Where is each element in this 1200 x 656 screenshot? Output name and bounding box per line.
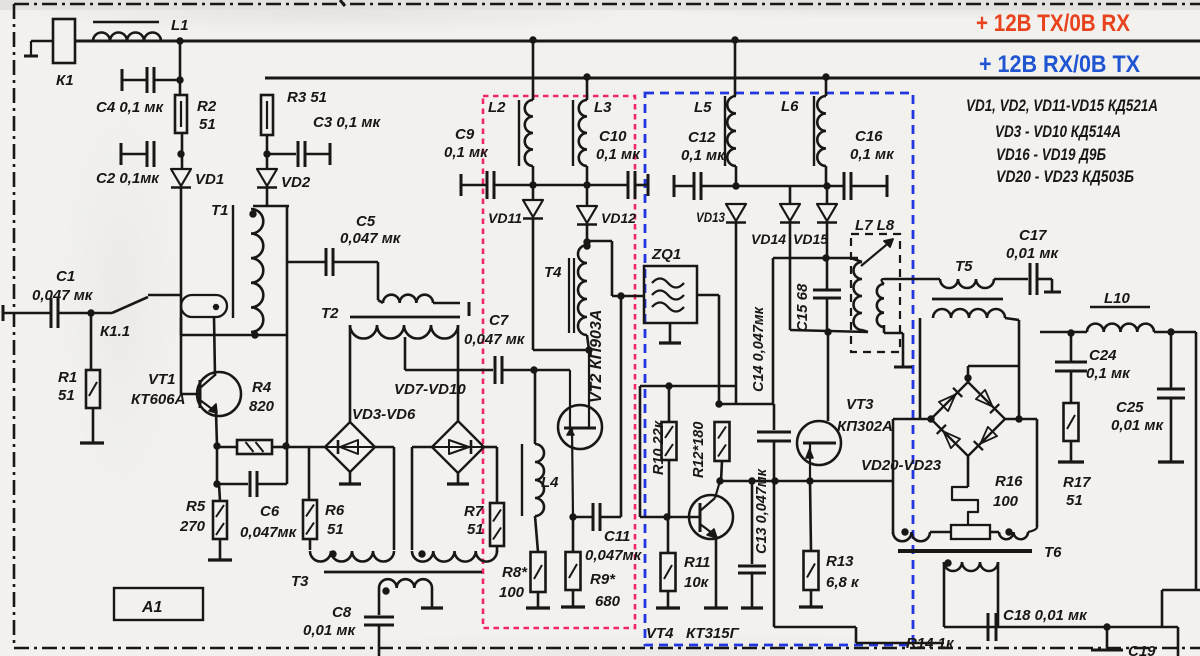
svg-text:R17: R17	[1063, 474, 1091, 491]
svg-text:R6: R6	[325, 502, 345, 519]
svg-text:С8: С8	[332, 604, 352, 621]
svg-text:С24: С24	[1089, 347, 1117, 364]
svg-text:51: 51	[58, 387, 75, 404]
svg-text:R2: R2	[197, 98, 217, 115]
svg-text:R9*: R9*	[590, 571, 616, 588]
svg-text:820: 820	[249, 398, 275, 415]
svg-text:R1: R1	[58, 369, 77, 386]
svg-text:VD3 - VD10 КД514А: VD3 - VD10 КД514А	[995, 122, 1121, 141]
svg-text:Т4: Т4	[544, 264, 562, 281]
svg-text:0,047 мк: 0,047 мк	[32, 287, 94, 304]
svg-text:R14 1к: R14 1к	[906, 635, 955, 652]
svg-text:ZQ1: ZQ1	[651, 246, 681, 263]
svg-text:R7: R7	[464, 503, 484, 520]
svg-text:0,1 мк: 0,1 мк	[681, 147, 726, 164]
svg-text:С5: С5	[356, 213, 376, 230]
svg-text:Т1: Т1	[211, 202, 229, 219]
svg-text:С25: С25	[1116, 399, 1144, 416]
svg-text:КП302А: КП302А	[837, 418, 893, 435]
svg-text:С1: С1	[56, 268, 75, 285]
svg-text:К1.1: К1.1	[100, 323, 130, 340]
svg-text:К1: К1	[56, 72, 74, 89]
svg-text:0,047 мк: 0,047 мк	[464, 331, 526, 348]
svg-text:0,1 мк: 0,1 мк	[596, 146, 641, 163]
svg-text:VD13: VD13	[696, 209, 725, 225]
svg-text:L2: L2	[488, 99, 506, 116]
svg-text:0,047мк: 0,047мк	[585, 547, 643, 564]
svg-text:51: 51	[327, 521, 344, 538]
svg-text:Т2: Т2	[321, 305, 339, 322]
svg-text:100: 100	[499, 584, 525, 601]
svg-text:6,8 к: 6,8 к	[826, 574, 860, 591]
svg-text:С10: С10	[599, 128, 627, 145]
svg-text:L4: L4	[541, 474, 559, 491]
svg-text:Т6: Т6	[1044, 544, 1062, 561]
svg-text:R16: R16	[995, 473, 1023, 490]
svg-text:С11: С11	[604, 528, 630, 545]
svg-text:VD7-VD10: VD7-VD10	[394, 381, 466, 398]
svg-text:VT3: VT3	[846, 396, 874, 413]
svg-text:VD20 - VD23 КД503Б: VD20 - VD23 КД503Б	[996, 167, 1134, 186]
svg-text:С7: С7	[489, 312, 509, 329]
svg-text:R13: R13	[826, 553, 854, 570]
svg-text:680: 680	[595, 593, 621, 610]
svg-text:VD11: VD11	[488, 210, 522, 226]
svg-text:VD15: VD15	[793, 231, 828, 247]
svg-text:VD3-VD6: VD3-VD6	[352, 406, 416, 423]
svg-text:100: 100	[993, 493, 1019, 510]
svg-text:С2 0,1мк: С2 0,1мк	[96, 170, 160, 187]
svg-text:R4: R4	[252, 379, 272, 396]
svg-text:0,1 мк: 0,1 мк	[1086, 365, 1131, 382]
svg-text:А1: А1	[141, 599, 163, 616]
svg-text:VT2 КП903А: VT2 КП903А	[588, 310, 605, 403]
svg-text:С19: С19	[1128, 643, 1156, 656]
svg-text:С13 0,047мк: С13 0,047мк	[754, 468, 770, 554]
svg-text:С6: С6	[260, 503, 280, 520]
svg-text:0,01 мк: 0,01 мк	[303, 622, 356, 639]
svg-text:0,01 мк: 0,01 мк	[1006, 245, 1059, 262]
svg-text:R3 51: R3 51	[287, 89, 327, 106]
svg-text:0,047мк: 0,047мк	[240, 524, 298, 541]
svg-text:Т5: Т5	[955, 258, 973, 275]
svg-text:С17: С17	[1019, 227, 1047, 244]
svg-text:R10 22к: R10 22к	[651, 420, 667, 475]
svg-text:51: 51	[1066, 492, 1083, 509]
svg-text:VD16 - VD19 Д9Б: VD16 - VD19 Д9Б	[996, 145, 1106, 164]
svg-text:51: 51	[467, 521, 484, 538]
svg-text:0,1 мк: 0,1 мк	[444, 144, 489, 161]
svg-text:L3: L3	[594, 99, 612, 116]
svg-text:С18 0,01 мк: С18 0,01 мк	[1003, 607, 1088, 624]
svg-text:L7 L8: L7 L8	[855, 217, 895, 234]
svg-text:С3 0,1 мк: С3 0,1 мк	[313, 114, 381, 131]
svg-text:R12*180: R12*180	[691, 422, 707, 478]
svg-text:С16: С16	[855, 128, 883, 145]
svg-text:С4 0,1 мк: С4 0,1 мк	[96, 99, 164, 116]
svg-text:VD12: VD12	[601, 210, 636, 226]
svg-text:L5: L5	[694, 99, 712, 116]
svg-text:VT1: VT1	[148, 371, 176, 388]
svg-text:КТ606А: КТ606А	[131, 391, 185, 408]
svg-text:VD20-VD23: VD20-VD23	[861, 457, 942, 474]
svg-text:С12: С12	[688, 129, 716, 146]
svg-text:270: 270	[179, 518, 206, 535]
svg-text:R11: R11	[684, 554, 710, 571]
svg-text:L10: L10	[1104, 290, 1131, 307]
svg-text:0,1 мк: 0,1 мк	[850, 146, 895, 163]
svg-text:R5: R5	[186, 498, 206, 515]
svg-text:R8*: R8*	[502, 564, 528, 581]
svg-text:VТ4: VТ4	[646, 625, 674, 642]
svg-text:С9: С9	[455, 126, 475, 143]
svg-text:Т3: Т3	[291, 573, 309, 590]
svg-text:С15 68: С15 68	[794, 283, 811, 332]
svg-text:L6: L6	[781, 98, 799, 115]
svg-text:10к: 10к	[684, 574, 710, 591]
svg-text:VD14: VD14	[751, 231, 786, 247]
svg-text:VD2: VD2	[281, 174, 311, 191]
svg-text:51: 51	[199, 116, 216, 133]
svg-text:+ 12В ТХ/0В RX: + 12В ТХ/0В RX	[976, 10, 1130, 37]
svg-text:+ 12В RX/0В ТХ: + 12В RX/0В ТХ	[979, 51, 1140, 78]
svg-text:КТ315Г: КТ315Г	[686, 625, 740, 642]
svg-text:С14 0,047мк: С14 0,047мк	[751, 306, 767, 392]
svg-text:VD1, VD2, VD11-VD15 КД521А: VD1, VD2, VD11-VD15 КД521А	[966, 96, 1158, 115]
svg-text:VD1: VD1	[195, 171, 224, 188]
svg-text:L1: L1	[171, 17, 189, 34]
svg-text:0,047 мк: 0,047 мк	[340, 230, 402, 247]
svg-text:0,01 мк: 0,01 мк	[1111, 417, 1164, 434]
